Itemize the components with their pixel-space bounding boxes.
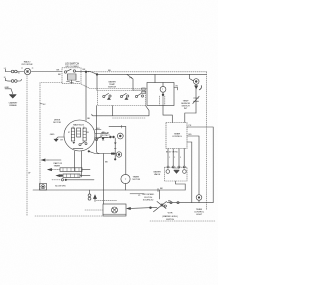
main line node to right (96, 74, 206, 76)
timer motor label (133, 177, 141, 182)
motor grd label and ground (50, 134, 64, 142)
wire into water valve box (154, 74, 156, 82)
step wire between plugs (114, 138, 117, 160)
wire main line to temp switch right (127, 74, 133, 90)
plug connector P1 (117, 133, 123, 139)
water level switch wire (167, 202, 213, 204)
svg-text:RD: RD (189, 134, 192, 136)
svg-text:SOLENOID: SOLENOID (143, 199, 154, 201)
timer right wire 1 (187, 125, 213, 202)
timer control box (166, 123, 187, 149)
arrow symbol (94, 195, 97, 202)
slow label (55, 185, 66, 187)
connector pair on L1 line (11, 70, 17, 73)
console light (196, 195, 202, 201)
plug prong N (4, 77, 6, 81)
bottom boundary dashed left (35, 215, 103, 217)
water level switch label (162, 213, 178, 221)
connector pair below bus (88, 190, 91, 200)
console boundary dashed top (88, 71, 207, 73)
thermal fuse hook (199, 86, 201, 90)
motor winding label (68, 123, 90, 134)
svg-text:RADIO: RADIO (24, 61, 31, 64)
motor protector label (100, 132, 111, 137)
wire noise filter to lid switch, label BK (31, 69, 62, 71)
GRD label (5, 87, 12, 89)
wire GRD to ground (11, 89, 13, 94)
wire temp switch left down to motor circuit (97, 106, 100, 154)
wire L1 to connector (6, 71, 12, 73)
svg-text:2: 2 (174, 157, 175, 159)
motor right stub 3 (95, 138, 108, 143)
capacitor label (142, 194, 155, 201)
lid switch body (67, 74, 80, 83)
water valve box top (147, 83, 174, 106)
connector pair on N line (11, 80, 17, 83)
wire to timer left (92, 106, 149, 116)
svg-text:VALVE: VALVE (154, 173, 161, 176)
water temp switch label (108, 80, 117, 88)
motor start winding (83, 128, 86, 141)
svg-text:1: 1 (169, 157, 170, 159)
svg-text:SLOW SPD: SLOW SPD (55, 185, 66, 187)
label YL (130, 194, 144, 197)
motor protector contact (95, 136, 104, 140)
noise filter label (22, 61, 33, 67)
svg-text:WTR: WTR (168, 213, 173, 215)
svg-text:SWITCH: SWITCH (108, 87, 117, 89)
part of timer switch body 2 (63, 174, 80, 177)
motor bottom wire 2 (81, 151, 83, 177)
drive motor label (53, 120, 61, 125)
motor bottom right wire (88, 151, 99, 154)
water valve assembly solenoid (166, 169, 186, 173)
washer light bulb (112, 207, 118, 213)
cam contact row 2 (52, 179, 94, 181)
lid switch contacts (64, 69, 81, 73)
neutral dashed wire down (26, 76, 28, 216)
water valve solenoid (160, 83, 166, 96)
wire N to connector (6, 80, 12, 83)
thermal fuse node dot (195, 86, 198, 89)
timer right wire 3 (187, 142, 192, 203)
svg-text:MAIN WDG: MAIN WDG (73, 123, 84, 126)
water valve assembly box (165, 167, 188, 181)
wire main line to fuse (189, 74, 193, 80)
timer motor to bus (125, 184, 127, 190)
water valve label (153, 171, 161, 177)
wire connector to noise filter (17, 71, 24, 73)
wire into plug P2 (99, 153, 116, 204)
motor right stub 1 (95, 128, 101, 130)
noise filter (22, 68, 35, 75)
svg-text:FRAME: FRAME (9, 104, 17, 107)
drive motor circle (64, 120, 95, 151)
svg-text:MOTOR: MOTOR (53, 122, 61, 124)
motor right stub 2 (95, 132, 108, 134)
part of timer switch body 1 (60, 168, 82, 172)
timer right wire 2 (187, 134, 199, 195)
svg-text:INT. FILTER: INT. FILTER (22, 64, 33, 66)
wire temp switch pin down (112, 106, 114, 116)
wire N end hook (17, 79, 21, 81)
dashed wire right of arrow (97, 200, 118, 202)
thermal fuse wire (195, 85, 197, 114)
cam arrow 1 (42, 159, 62, 161)
water valve stub right (174, 86, 179, 90)
neutral bus (33, 188, 185, 192)
wire lid switch to node, label BK (81, 69, 97, 74)
svg-text:WATER: WATER (153, 171, 161, 174)
svg-text:BK GY OR RD: BK GY OR RD (166, 151, 178, 153)
wire label BU (108, 70, 111, 72)
console light label (194, 209, 205, 216)
motor start switch (73, 142, 88, 149)
dashed boundary below temp switch (113, 117, 147, 119)
svg-text:(WATER LEVEL): (WATER LEVEL) (162, 215, 178, 218)
temp switch contact 3 (135, 93, 143, 97)
connector dots (104, 136, 114, 138)
wire across upper center (109, 125, 126, 128)
svg-text:GRD: GRD (50, 134, 55, 136)
svg-text:ST: ST (68, 132, 70, 134)
wire fuse to timer top (185, 113, 196, 123)
svg-text:LIGHT: LIGHT (196, 214, 203, 216)
plug connector P2 (116, 152, 121, 157)
water valve connector left (134, 88, 145, 93)
thermal fuse element (193, 96, 199, 103)
thermal fuse top circle (193, 79, 199, 85)
wire label W (18, 73, 21, 75)
timer motor (121, 174, 130, 183)
temp sensor label (181, 100, 190, 110)
cam arrow 2 (48, 169, 90, 171)
wire into timer upper (163, 106, 172, 123)
lid switch box (62, 68, 81, 84)
plug prong L1 (4, 68, 7, 72)
timer boundary dashed corner (40, 83, 62, 191)
svg-text:TIMER: TIMER (54, 166, 61, 168)
svg-text:3: 3 (180, 157, 181, 159)
label on neutral wire (28, 173, 31, 175)
label BK (168, 200, 171, 202)
part of timer label (54, 162, 63, 168)
dashed boundary lid switch to temp switch (81, 84, 147, 89)
washer light box (103, 204, 126, 216)
ground chassis symbol (9, 94, 16, 98)
wire into washer light (127, 207, 157, 210)
wire down to timer motor (125, 127, 127, 175)
dashed wire left of washer light (85, 209, 103, 211)
timer pin contacts (166, 151, 185, 168)
lid switch label (65, 62, 79, 69)
timer control label (172, 134, 183, 139)
console boundary dashed right (206, 72, 208, 210)
timer pins down (168, 149, 184, 167)
water valve internal dashed pins (160, 96, 165, 106)
wire BK down from lid switch to motor (85, 71, 91, 121)
right side long wire (184, 184, 186, 190)
motor bottom wire 1 (74, 151, 76, 171)
motor main winding (71, 128, 74, 141)
slow speed motor box (40, 184, 47, 191)
temp switch contact 1 (103, 93, 111, 99)
svg-text:MOTOR: MOTOR (133, 179, 141, 181)
console light bottom wire (198, 200, 200, 202)
cam contact row (57, 175, 91, 177)
cabinet frame label (9, 101, 19, 107)
wire node down into temp switch (96, 74, 98, 90)
svg-text:CABINET: CABINET (9, 101, 19, 104)
temp switch contact 2 (120, 93, 128, 99)
water level switch crossing (154, 190, 167, 212)
svg-text:CONTROL: CONTROL (172, 136, 183, 138)
label BK left of lid switch (58, 74, 61, 76)
water temp switch box (98, 91, 146, 106)
svg-text:PART OF: PART OF (54, 162, 63, 165)
motor aux winding (77, 128, 81, 137)
svg-text:LID SWITCH: LID SWITCH (65, 62, 79, 66)
bottom boundary dashed right (150, 220, 215, 222)
valve assembly bottom wire (176, 181, 186, 184)
svg-text:WATER: WATER (108, 80, 116, 83)
